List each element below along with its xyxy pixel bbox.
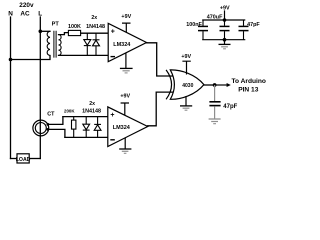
resistor 100K: [68, 30, 80, 35]
transformer PT core: [54, 31, 56, 58]
svg-text:LM324: LM324: [113, 125, 131, 131]
capacitor C1 100nF: [198, 20, 208, 40]
wire CT top lead: [48, 117, 63, 125]
XOR ground: [180, 96, 192, 110]
svg-text:LOAD: LOAD: [16, 157, 31, 163]
svg-text:+9V: +9V: [181, 54, 191, 60]
wire bottom op-amp output to XOR input B: [148, 92, 175, 126]
capacitor C2 470uF: [220, 20, 230, 40]
label - input (top op-amp): [111, 56, 116, 58]
node L-primary junction: [39, 30, 43, 34]
XOR input arc: [166, 70, 171, 99]
svg-text:L: L: [38, 11, 42, 18]
current transformer CT: [33, 120, 49, 136]
wire bottom section top rail: [63, 116, 109, 118]
label - input (bottom op-amp): [110, 139, 115, 141]
svg-text:220v: 220v: [19, 2, 34, 9]
node cap bank bottom junction: [223, 38, 227, 42]
node CT terminal top: [47, 123, 50, 126]
svg-text:AC: AC: [20, 11, 30, 18]
svg-text:CT: CT: [47, 111, 55, 117]
wire cap bank top rail: [202, 19, 245, 21]
svg-text:N: N: [8, 11, 13, 18]
diode D2 1N4148 (top pair, cathode up): [93, 33, 100, 55]
wire L line vertical: [39, 17, 41, 159]
op-amp U1A ground: [120, 53, 133, 73]
svg-text:+: +: [111, 28, 115, 35]
arrow to Arduino: [215, 84, 228, 86]
wire XOR output: [204, 84, 215, 86]
wire LOAD right (from L): [29, 158, 40, 160]
op-amp U1A LM324 (top): [108, 23, 146, 61]
svg-text:LM324: LM324: [113, 42, 131, 48]
svg-text:4030: 4030: [182, 83, 193, 89]
svg-text:To Arduino: To Arduino: [231, 78, 265, 85]
wire cap bank bottom rail: [202, 39, 245, 41]
wire N line vertical: [10, 17, 12, 159]
diode D3 1N4148 (bottom pair, cathode down): [83, 117, 90, 138]
svg-text:470uF: 470uF: [207, 15, 223, 21]
transformer PT secondary winding: [59, 35, 62, 56]
svg-text:+: +: [110, 112, 114, 119]
capacitor C3 47pF: [239, 20, 249, 40]
svg-text:PIN 13: PIN 13: [238, 86, 258, 93]
wire +9V stub (cap bank): [224, 10, 226, 20]
svg-text:PT: PT: [52, 21, 60, 27]
node N-primary junction: [9, 58, 13, 62]
svg-text:+9V: +9V: [121, 14, 131, 20]
op-amp U1B LM324 (bottom): [108, 107, 148, 147]
op-amp U1B ground: [119, 138, 131, 154]
LOAD box: [17, 154, 29, 163]
wire primary top lead: [40, 30, 50, 32]
svg-text:200K: 200K: [64, 109, 75, 114]
XOR gate 4030: [170, 70, 204, 99]
wire LOAD left (from N): [11, 158, 18, 160]
wire top op-amp output to XOR input A: [147, 43, 175, 76]
capacitor C4 47pF (output filter): [209, 85, 220, 119]
op-amp U1A +9V stub: [122, 23, 131, 32]
ground (cap bank): [219, 40, 231, 49]
svg-text:2x: 2x: [91, 15, 97, 21]
svg-text:47pF: 47pF: [223, 104, 237, 110]
svg-text:100nF: 100nF: [186, 22, 202, 28]
svg-text:2x: 2x: [89, 101, 95, 107]
wire bottom section bottom rail: [65, 136, 109, 138]
svg-text:1N4148: 1N4148: [82, 109, 101, 115]
svg-text:+9V: +9V: [120, 94, 130, 100]
resistor 200K (vertical): [73, 117, 75, 138]
wire top rail + input: [81, 32, 109, 34]
svg-text:100K: 100K: [68, 24, 81, 30]
diode D1 1N4148 (top pair, cathode down): [84, 33, 91, 55]
XOR +9V stub: [182, 61, 190, 74]
op-amp U1B +9V stub: [121, 103, 129, 115]
ground (output filter, gray): [209, 119, 221, 124]
wire secondary top lead: [59, 33, 69, 35]
diode D4 1N4148 (bottom pair, cathode up): [94, 117, 101, 138]
wire CT bottom lead: [48, 129, 65, 137]
svg-text:1N4148: 1N4148: [86, 24, 105, 30]
transformer PT primary winding: [47, 31, 50, 55]
wire bottom rail - input (secondary bottom to op-amp): [59, 54, 110, 56]
node cap bank top junction: [223, 18, 227, 22]
wire primary bottom lead to N: [11, 56, 51, 60]
node CT terminal bottom: [47, 128, 50, 131]
node output junction: [213, 83, 217, 87]
svg-text:47pF: 47pF: [247, 22, 260, 28]
